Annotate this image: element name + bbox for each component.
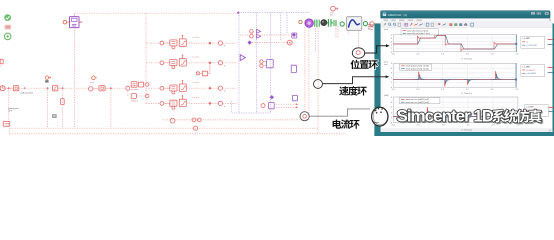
svg-text:y 0.00022: y 0.00022 — [526, 70, 536, 72]
offplot marker red P1 — [548, 38, 553, 40]
curve red spike P3 — [423, 107, 433, 116]
motor M1 — [305, 19, 313, 27]
wire chain out to purple col — [223, 87, 238, 89]
curve red P3 baseline — [393, 116, 518, 118]
inertia disc — [321, 20, 327, 26]
window frame teal right — [552, 23, 554, 131]
cursor line P2 — [515, 63, 517, 87]
plot frame P3 — [393, 97, 518, 123]
wire feedback v2 — [308, 28, 310, 120]
wire drop v1 — [8, 90, 10, 128]
toolbar icon — [449, 23, 452, 26]
wire bottom left vertical — [9, 128, 11, 134]
legend overlay P2 — [400, 64, 432, 70]
curve blue P3 baseline — [393, 115, 518, 117]
converter block U1 — [70, 17, 80, 28]
left edge component stub — [0, 59, 3, 64]
offplot marker blue P2 — [548, 71, 553, 73]
mini icon pair 1 circle-arrow — [45, 76, 48, 79]
rotary load ring — [340, 22, 344, 26]
wire to node — [186, 87, 207, 89]
wire drop v4 — [74, 90, 76, 128]
wire to j2 — [19, 87, 46, 89]
gauge box — [347, 17, 362, 31]
curve red spike P2 — [491, 71, 501, 79]
red sensor ring-arrow A — [287, 40, 292, 45]
window toolbar — [381, 22, 553, 28]
node j4 — [110, 87, 112, 89]
mini icon pair 1 chip — [45, 80, 48, 82]
offplot marker red P3 — [549, 106, 554, 108]
bottom-left source block — [3, 121, 10, 126]
wire to node — [186, 102, 207, 104]
menu item — [408, 19, 414, 21]
limiter block — [179, 99, 186, 106]
controller block — [170, 100, 177, 106]
purple block C — [267, 60, 274, 68]
curve red P1 — [393, 35, 517, 51]
wire red F — [240, 34, 290, 36]
legend overlay P1 — [401, 29, 438, 35]
svg-text:el. motor: el. motor — [131, 88, 139, 91]
toolbar icon — [389, 23, 391, 25]
svg-text:AMEPlot0 : [1]: AMEPlot0 : [1] — [388, 13, 407, 17]
window button minimize — [531, 12, 535, 15]
sub chain y=73.5 ring A — [196, 72, 199, 75]
purple block I — [292, 95, 297, 100]
wire feedback v1 current — [304, 27, 306, 111]
toolbar icon — [405, 23, 408, 26]
annotation line current-loop — [309, 109, 370, 116]
wire chain out to purple col — [223, 62, 238, 64]
node diamond — [208, 102, 211, 105]
ramp block — [13, 86, 18, 91]
controller block — [170, 60, 177, 66]
node diamond — [208, 61, 211, 64]
branch upper out ring — [145, 83, 149, 87]
window statusbar — [381, 128, 553, 132]
bottom ring pair — [192, 118, 196, 122]
red ring in current ellipse — [303, 115, 307, 119]
window button maximize — [537, 12, 541, 15]
clock source — [0, 86, 5, 91]
wire clock link — [5, 87, 8, 89]
mascot sketch circle — [372, 107, 388, 126]
curve red spike P3 — [464, 116, 474, 120]
wire bottom rail 2 — [10, 127, 318, 129]
toolbar icon — [454, 23, 457, 26]
node j2 — [46, 87, 48, 89]
toolbar icon — [420, 24, 423, 26]
wire dot node — [10, 87, 13, 89]
wire vertical feed column — [145, 13, 147, 103]
stem arrow — [182, 81, 184, 84]
wire row feed y=62.8 — [146, 62, 160, 64]
offplot marker blue P1 — [548, 43, 553, 45]
svg-text:wind mot curr [mA] 1 [null]: wind mot curr [mA] 1 [null] — [406, 98, 430, 101]
wire drop v3 — [62, 90, 64, 128]
bottom ring r1 — [170, 118, 175, 123]
svg-text:(rev): (rev) — [384, 29, 388, 31]
offplot marker red P2 — [548, 66, 553, 68]
wire feedback v3 speed — [317, 28, 319, 134]
svg-text:wind mot curr [mA] 2 [null]: wind mot curr [mA] 2 [null] — [406, 101, 430, 104]
red rings E — [250, 30, 254, 34]
node diamond — [208, 87, 211, 90]
menu item — [384, 19, 389, 21]
svg-text:X: Time [s]: X: Time [s] — [461, 130, 472, 132]
svg-text:Simcenter 1D: Simcenter 1D — [397, 106, 494, 125]
annotation ellipse current-loop — [300, 112, 309, 121]
wire drop v2 — [47, 90, 49, 128]
wire purple vertical 5 — [280, 13, 282, 40]
toolbar icon — [415, 24, 418, 26]
comparator ring — [89, 87, 93, 91]
purple block H — [269, 103, 275, 109]
controller block — [170, 85, 177, 91]
svg-text:sensor k: sensor k — [131, 100, 138, 103]
mini icon pair 2 circle-arrow — [92, 76, 96, 80]
svg-text:deg: deg — [330, 15, 333, 17]
summing ring — [160, 41, 164, 45]
window button close — [545, 12, 549, 15]
svg-text:x 1.4837: x 1.4837 — [526, 107, 535, 109]
menu item — [416, 19, 422, 21]
supply dot — [299, 20, 302, 23]
label dianliuhuan — [333, 119, 360, 128]
resize grip — [549, 129, 551, 131]
svg-text:y 0.9790538: y 0.9790538 — [526, 45, 538, 47]
curve red spike P2 — [463, 80, 473, 85]
toolbar icon — [431, 23, 434, 26]
svg-text:k_p Gain: k_p Gain — [192, 57, 199, 59]
purple mini triangles E — [257, 29, 261, 38]
svg-text:0: 0 — [0, 66, 1, 68]
title cjk — [492, 109, 542, 122]
svg-text:min): min) — [384, 64, 388, 66]
curve blue P2 baseline — [393, 79, 517, 81]
sub chain ring B link — [200, 72, 203, 74]
plot frame P1 — [393, 35, 517, 52]
window titlebar icon — [383, 13, 386, 16]
annotation ellipse position-loop — [356, 51, 360, 55]
menu item — [399, 19, 405, 21]
offplot marker blue P3 — [549, 110, 554, 112]
status icon refresh (green circle) — [4, 33, 11, 40]
toolbar icon — [443, 24, 446, 26]
purple opamp B — [240, 55, 245, 61]
wire port link — [67, 21, 70, 23]
wire drop v5 — [110, 90, 112, 128]
branch upper y=84.5 block 1 — [131, 82, 137, 88]
wire to node — [186, 62, 207, 64]
window client background — [381, 18, 553, 131]
cursor line P1 — [515, 35, 517, 52]
wire purple feedback — [314, 28, 316, 52]
splitter ring — [126, 86, 130, 90]
wire to motor ring — [64, 87, 88, 89]
sub chain block — [202, 71, 207, 76]
bottom ring r3 — [194, 126, 198, 130]
wire bottom rail 1 — [162, 119, 302, 121]
purple block D — [291, 65, 296, 72]
limiter block — [179, 84, 186, 91]
wire purple vertical 4 — [231, 101, 233, 113]
node purple diamond top — [237, 11, 240, 14]
curve blue spike P2 — [492, 74, 502, 79]
curve blue spike P2 — [464, 80, 474, 83]
wire stub right — [79, 21, 82, 23]
toolbar icon — [384, 23, 386, 25]
stem arrow — [182, 96, 184, 99]
curve red spike P2 — [440, 80, 450, 87]
wire stub gauge drop — [348, 30, 350, 35]
annotation ellipse speed-loop — [314, 80, 323, 89]
menu item — [391, 19, 396, 21]
out ring — [218, 61, 222, 65]
curve blue P1 — [393, 35, 517, 49]
label suduhuan — [339, 86, 367, 95]
title shadow cjk — [493, 111, 543, 124]
curve red spike P3 — [441, 116, 451, 120]
branch lower block — [131, 94, 136, 99]
window menubar — [381, 18, 553, 21]
svg-text:LQR gain block: LQR gain block — [20, 92, 33, 94]
toolbar icon — [459, 23, 462, 26]
wire to out ring — [212, 42, 218, 44]
wire purple bottom link — [232, 112, 271, 114]
limiter block — [179, 59, 186, 66]
red rings C — [260, 60, 263, 63]
window frame teal left — [374, 23, 380, 136]
wire to out ring — [212, 87, 218, 89]
coupling gears — [315, 19, 319, 27]
wire purple rail — [238, 12, 309, 14]
plot frame P2 — [393, 63, 517, 87]
red arrows H — [276, 103, 298, 105]
wire vertical from transformer top — [74, 13, 76, 16]
toolbar icon — [410, 23, 412, 25]
curve blue spike P3 — [424, 111, 434, 116]
wire vertical transformer to bottom row — [74, 28, 76, 88]
cursor legend P2 — [521, 65, 545, 77]
stem arrow — [182, 56, 184, 59]
summing ring — [160, 61, 164, 65]
purple node F — [292, 33, 296, 37]
stem arrow — [182, 36, 184, 39]
wire purple vertical 1 — [238, 13, 240, 113]
resistor small left — [61, 99, 65, 105]
wire row feed y=103.4 — [146, 102, 160, 104]
toolbar icon — [464, 24, 467, 26]
toolbar icon — [438, 23, 440, 26]
node j3 — [61, 87, 63, 89]
legend overlay P3 — [399, 98, 440, 104]
svg-text:x 1.4837: x 1.4837 — [523, 38, 532, 40]
wire purple vertical 6 — [286, 13, 288, 33]
svg-text:input ail [rev] ramp 1 [rev]: input ail [rev] ramp 1 [rev] — [407, 32, 430, 35]
svg-text:k_p Gain: k_p Gain — [192, 37, 199, 39]
svg-text:input ail [rev] and I [rev]: input ail [rev] and I [rev] — [407, 29, 428, 32]
branch lower out ring — [145, 94, 149, 98]
out ring — [218, 41, 222, 45]
wire to splitter — [112, 87, 126, 89]
label weizhihuan — [351, 60, 378, 70]
dynamics block — [99, 86, 105, 91]
port circle — [63, 20, 67, 24]
mascot marks — [373, 107, 382, 111]
svg-text:X: Time [s]: X: Time [s] — [461, 93, 472, 95]
sensor ring red — [370, 22, 374, 26]
svg-text:k_p Gain: k_p Gain — [192, 97, 199, 99]
summing ring — [160, 102, 164, 106]
wire feedback v4 position — [357, 30, 359, 47]
sub chain stem — [209, 65, 211, 74]
out ring — [218, 101, 222, 105]
status icon rec (pink) — [5, 25, 11, 30]
svg-text:w ref: w ref — [90, 82, 94, 84]
wire to node — [186, 42, 207, 44]
svg-text:shaft spd [rev/min] 1 [null]: shaft spd [rev/min] 1 [null] — [406, 65, 429, 68]
curve blue spike P2 — [441, 80, 451, 84]
limiter block — [179, 39, 186, 46]
svg-text:(mA): (mA) — [384, 94, 389, 97]
wire red A — [252, 42, 287, 44]
sensor ring green — [363, 22, 367, 26]
out ring — [218, 86, 222, 90]
node diamond — [208, 42, 211, 45]
red ring H — [261, 104, 265, 108]
node j1 — [8, 87, 10, 89]
sensor speed icon — [331, 6, 336, 11]
wire to out ring — [212, 102, 218, 104]
wire to out ring — [212, 62, 218, 64]
curve red spike P3 — [492, 111, 502, 116]
menu chevron — [549, 19, 550, 21]
purple node diamond A — [247, 40, 251, 44]
wire purple vertical 3 — [270, 13, 272, 113]
wire top rail — [75, 12, 239, 14]
cursor legend P1 — [521, 36, 545, 48]
cursor legend P3 — [524, 105, 548, 117]
wire drop splitter — [127, 90, 129, 96]
toolbar icon — [393, 23, 395, 25]
wire chain out to purple col — [223, 102, 238, 104]
curve blue spike P2 — [415, 75, 425, 80]
wire stub damper drops — [335, 26, 337, 38]
wire chain out to purple col — [223, 42, 238, 44]
svg-text:k_p Gain: k_p Gain — [192, 82, 199, 84]
wire purple vertical 2 — [256, 13, 258, 113]
annotation arrow speed-loop — [323, 77, 386, 84]
purple comp F2 — [292, 33, 297, 38]
annotation arrow position-loop — [365, 46, 386, 53]
svg-text:y -0.044876: y -0.044876 — [526, 73, 537, 75]
spring-damper — [327, 19, 333, 27]
curve red spike P2 — [414, 72, 424, 80]
signal block 2 — [52, 86, 57, 91]
toolbar icon — [471, 23, 474, 26]
controller block — [170, 40, 177, 46]
svg-text:x 1.4837: x 1.4837 — [523, 66, 532, 68]
svg-text:X: Time [s]: X: Time [s] — [461, 59, 472, 61]
gray chip icon — [52, 114, 56, 118]
svg-text:shaft spd [rev/min] 2 [null]: shaft spd [rev/min] 2 [null] — [406, 67, 429, 70]
toolbar icon — [398, 23, 401, 26]
curve red P2 baseline — [393, 79, 517, 81]
summing ring — [160, 86, 164, 90]
purple diamond G — [270, 95, 274, 99]
toolbar icon — [426, 23, 429, 26]
branch upper block 2 — [138, 82, 143, 87]
status icon run-ok (green check) — [4, 14, 11, 21]
wire row feed y=88.2 — [146, 87, 160, 89]
curve blue spike P3 — [441, 116, 451, 119]
wire row feed y=43.1 — [146, 42, 160, 44]
curve blue spike P3 — [464, 116, 474, 118]
curve blue spike P3 — [492, 113, 502, 116]
wire bottom rail 3 — [10, 133, 345, 135]
window frame teal bottom — [374, 132, 554, 136]
wire link — [93, 88, 99, 90]
